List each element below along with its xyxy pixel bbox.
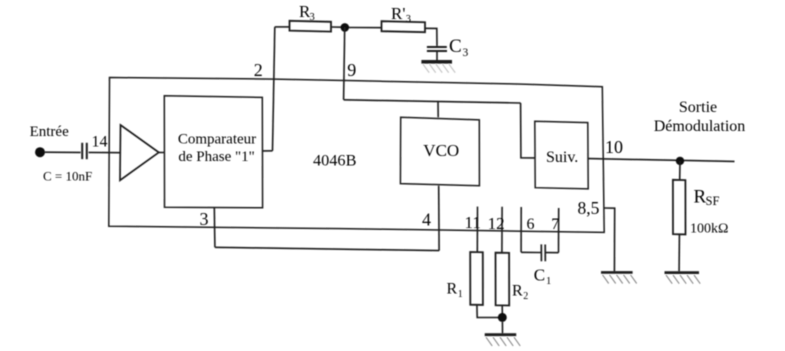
capacitor C1 bbox=[541, 244, 545, 261]
svg-text:Comparateur: Comparateur bbox=[178, 132, 256, 148]
svg-text:4: 4 bbox=[422, 209, 431, 229]
wire pin 9 vertical bbox=[344, 27, 345, 99]
ground RSF bbox=[665, 273, 701, 284]
wire input to capacitor bbox=[45, 151, 81, 153]
svg-text:3: 3 bbox=[310, 12, 315, 23]
svg-text:1: 1 bbox=[546, 276, 551, 287]
svg-text:C: C bbox=[449, 36, 462, 57]
label R2 bbox=[512, 283, 528, 303]
VCO box bbox=[400, 117, 479, 186]
wire internal pin 9 horizontal bbox=[344, 100, 521, 103]
label RSF bbox=[694, 187, 720, 208]
svg-text:Suiv.: Suiv. bbox=[546, 149, 578, 166]
wire RSF to ground bbox=[678, 234, 680, 271]
svg-text:4046B: 4046B bbox=[313, 151, 357, 170]
resistor R1 bbox=[470, 252, 483, 305]
svg-text:12: 12 bbox=[488, 214, 505, 233]
resistor R'3 bbox=[382, 21, 426, 32]
wire pin 11 bbox=[476, 207, 478, 252]
wire R2 bottom to node bbox=[501, 306, 503, 314]
wire amplifier to comparator bbox=[159, 151, 165, 153]
svg-text:2: 2 bbox=[523, 291, 528, 302]
resistor RSF bbox=[673, 180, 686, 235]
svg-text:100kΩ: 100kΩ bbox=[690, 221, 728, 236]
wire R'3 to C3 bbox=[425, 28, 437, 46]
label R3 bbox=[299, 2, 315, 23]
comparator box (Comparateur de Phase "1") bbox=[164, 96, 262, 208]
wire to resistor R3 bbox=[275, 26, 290, 28]
svg-text:8,5: 8,5 bbox=[578, 198, 600, 218]
label R'3 bbox=[391, 4, 411, 25]
svg-text:2: 2 bbox=[254, 60, 263, 80]
wire pin 8,5 stub bbox=[604, 208, 615, 271]
resistor R3 bbox=[290, 21, 332, 32]
node input (Entrée) bbox=[35, 147, 45, 157]
wire R1 bottom to node bbox=[477, 305, 502, 318]
svg-text:Entrée: Entrée bbox=[30, 124, 69, 140]
label C1 bbox=[534, 265, 552, 287]
label R1 bbox=[447, 281, 463, 301]
wire pin 7 bbox=[558, 208, 560, 253]
svg-text:R: R bbox=[447, 281, 458, 298]
IC 4046B outline bbox=[109, 78, 604, 233]
wire pin 12 bbox=[501, 207, 503, 253]
svg-text:VCO: VCO bbox=[423, 141, 459, 160]
svg-text:7: 7 bbox=[551, 216, 559, 233]
wire pin 4 to pin 3 feedback bbox=[215, 247, 439, 250]
wire capacitor to amplifier bbox=[89, 151, 120, 153]
amplifier input buffer triangle bbox=[120, 125, 159, 180]
ground C3 bbox=[421, 62, 455, 73]
svg-text:14: 14 bbox=[92, 134, 108, 151]
svg-text:3: 3 bbox=[463, 47, 469, 59]
wire branch to VCO input bbox=[437, 101, 439, 117]
svg-text:de Phase "1": de Phase "1" bbox=[178, 149, 254, 165]
wire pin 2 vertical bbox=[273, 27, 275, 151]
wire pin 2 to comparator bbox=[263, 150, 273, 152]
resistor R2 bbox=[496, 253, 510, 306]
capacitor C input 10nF bbox=[82, 143, 87, 159]
svg-text:1: 1 bbox=[458, 289, 463, 300]
label Sortie Démodulation bbox=[654, 99, 746, 135]
wire node to ground bbox=[501, 322, 503, 333]
svg-text:Sortie: Sortie bbox=[679, 99, 717, 116]
svg-text:C: C bbox=[534, 265, 545, 284]
ground R1 R2 bbox=[485, 335, 521, 346]
wire to follower (Suiv.) bbox=[521, 103, 535, 158]
wire pin 6 to C1 bbox=[521, 251, 540, 253]
svg-text:R: R bbox=[512, 283, 523, 300]
node output junction bbox=[676, 157, 684, 165]
wire VCO output pin 4 bbox=[438, 186, 440, 251]
node R1 R2 junction bbox=[498, 313, 507, 322]
svg-text:C = 10nF: C = 10nF bbox=[43, 168, 92, 183]
wire pin 3 vertical bbox=[213, 208, 216, 248]
svg-text:6: 6 bbox=[527, 216, 535, 233]
follower box Suiv. bbox=[535, 121, 588, 189]
svg-text:R': R' bbox=[391, 4, 405, 23]
label C3 bbox=[449, 36, 469, 59]
svg-text:3: 3 bbox=[200, 209, 209, 229]
wire node to RSF bbox=[679, 161, 681, 180]
svg-text:10: 10 bbox=[605, 137, 623, 157]
wire node to R'3 bbox=[349, 27, 382, 29]
wire C1 to pin 7 bbox=[546, 252, 559, 254]
svg-text:11: 11 bbox=[465, 213, 481, 232]
ground pin 8,5 bbox=[601, 272, 637, 283]
wire output pin 10 bbox=[588, 159, 734, 162]
wire pin 6 bbox=[520, 207, 522, 252]
node junction R3/R'3/pin9 bbox=[341, 23, 350, 32]
capacitor C3 bbox=[427, 47, 447, 51]
wire C3 to ground bbox=[436, 52, 438, 60]
svg-text:3: 3 bbox=[406, 14, 411, 25]
svg-text:SF: SF bbox=[706, 194, 720, 208]
svg-text:Démodulation: Démodulation bbox=[654, 118, 746, 135]
svg-text:9: 9 bbox=[347, 60, 356, 80]
wire R3 to node bbox=[331, 26, 341, 28]
